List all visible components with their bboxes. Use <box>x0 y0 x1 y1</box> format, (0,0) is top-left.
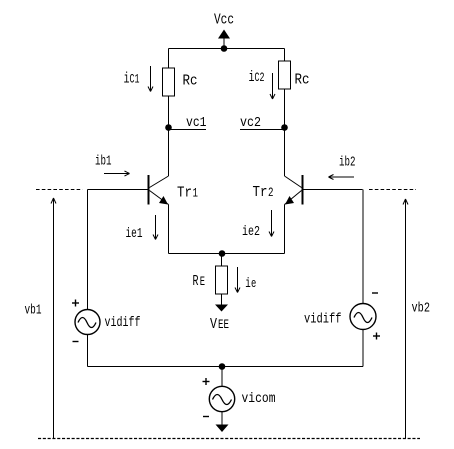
svg-text:vc2: vc2 <box>240 116 261 131</box>
svg-text:vidiff: vidiff <box>304 313 342 328</box>
label vb2 <box>412 302 431 317</box>
label iC2 <box>249 69 265 86</box>
resistor Rc1 <box>163 68 175 96</box>
label + of left vidiff <box>72 300 79 307</box>
label vidiff left <box>105 316 141 331</box>
ground vicom arrow symbol <box>216 425 229 433</box>
wire left vidiff bottom lead <box>87 335 89 367</box>
label vc1 <box>186 116 207 131</box>
wire Rc1 bottom lead <box>168 96 170 128</box>
label RE value <box>193 273 206 290</box>
current arrow ib1 <box>104 171 130 176</box>
dashed input line right <box>369 189 416 191</box>
wire vicom top lead <box>221 367 223 387</box>
svg-text:Vcc: Vcc <box>214 12 234 29</box>
wire RE bottom lead <box>221 294 223 305</box>
wire bottom bus <box>88 366 364 368</box>
wire Tr2 emitter <box>285 191 302 254</box>
svg-text:i: i <box>245 277 251 292</box>
svg-text:Rc: Rc <box>183 73 198 90</box>
svg-text:vicom: vicom <box>242 392 276 407</box>
label ie1 <box>126 227 143 242</box>
node Vcc junction <box>221 45 228 52</box>
wire emitter bus <box>169 253 285 255</box>
node vc1 <box>165 124 172 131</box>
resistor Rc2 <box>279 61 291 89</box>
power VCC arrow symbol <box>218 30 230 49</box>
source vicom <box>209 386 234 411</box>
svg-text:vb2: vb2 <box>412 302 431 317</box>
label Vcc <box>214 12 234 29</box>
svg-text:R: R <box>193 273 199 290</box>
svg-text:Rc: Rc <box>295 72 310 89</box>
label ie2 <box>242 225 260 240</box>
wire Rc1 top lead <box>168 49 170 69</box>
label ib2 <box>339 156 356 171</box>
svg-text:V: V <box>210 316 217 333</box>
wire vicom bottom lead <box>221 412 223 426</box>
measure arrow vb2 <box>403 199 408 439</box>
label Rc1 value <box>183 73 198 90</box>
wire Rc2 top lead <box>284 49 286 62</box>
transistor Q Tr1 <box>148 175 150 205</box>
power VEE arrow symbol <box>215 305 228 312</box>
node vicom junction <box>219 363 226 370</box>
measure arrow vb1 <box>51 198 56 439</box>
svg-text:2: 2 <box>268 186 274 200</box>
svg-text:ie1: ie1 <box>126 227 143 242</box>
transistor Q Tr2 <box>302 175 304 205</box>
current arrow iC1 <box>148 66 153 92</box>
label - of left vidiff <box>73 341 79 343</box>
svg-text:C1: C1 <box>130 73 140 87</box>
wire vc2 label tick <box>240 129 285 131</box>
wire RE top lead <box>221 254 223 267</box>
label vicom <box>242 392 276 407</box>
wire right input down <box>362 190 364 304</box>
svg-text:C2: C2 <box>255 71 265 85</box>
svg-text:1: 1 <box>193 187 199 201</box>
svg-text:ib2: ib2 <box>339 156 356 171</box>
resistor RE <box>216 266 228 294</box>
label - of vicom <box>203 416 209 418</box>
label Tr1 <box>177 185 198 202</box>
wire Tr2 base lead <box>304 189 363 191</box>
label vidiff right <box>304 313 342 328</box>
wire left input down <box>87 190 89 310</box>
label vb1 <box>25 304 42 319</box>
svg-text:ib1: ib1 <box>95 155 112 170</box>
label + of vicom <box>203 378 210 385</box>
source vidiff right <box>350 304 376 330</box>
node vc2 <box>281 124 288 131</box>
label + of right vidiff <box>373 333 380 340</box>
svg-text:vb1: vb1 <box>25 304 42 319</box>
svg-text:Tr: Tr <box>177 185 192 202</box>
label Rc2 value <box>295 72 310 89</box>
svg-text:e: e <box>251 277 256 291</box>
node emitter junction <box>219 250 226 257</box>
wire top bus <box>169 48 285 50</box>
wire Tr1 collector <box>150 128 169 188</box>
label vc2 <box>240 116 261 131</box>
current arrow ib2 <box>329 175 355 180</box>
label - of right vidiff <box>372 292 378 294</box>
svg-text:vc1: vc1 <box>186 116 207 131</box>
dashed input line left <box>36 189 83 191</box>
wire vc1 label tick <box>169 129 207 131</box>
current arrow iC2 <box>270 73 275 99</box>
svg-text:vidiff: vidiff <box>105 316 141 331</box>
label ie <box>245 277 256 292</box>
dashed reference line bottom <box>38 438 420 440</box>
wire right vidiff bottom lead <box>362 330 364 367</box>
svg-text:E: E <box>200 275 205 289</box>
current arrow ie2 <box>269 210 274 237</box>
label Tr2 <box>253 184 274 201</box>
label iC1 <box>124 71 140 88</box>
wire Tr1 base lead <box>88 189 148 191</box>
current arrow ie1 <box>153 215 158 240</box>
svg-text:EE: EE <box>218 318 229 332</box>
wire Tr1 emitter <box>150 191 169 254</box>
svg-text:Tr: Tr <box>253 184 268 201</box>
wire Rc2 bottom lead <box>284 89 286 128</box>
svg-text:ie2: ie2 <box>242 225 260 240</box>
current arrow ie <box>235 267 240 293</box>
source vidiff left <box>75 310 100 335</box>
label ib1 <box>95 155 112 170</box>
wire Tr2 collector <box>285 128 302 188</box>
label VEE <box>210 316 229 333</box>
